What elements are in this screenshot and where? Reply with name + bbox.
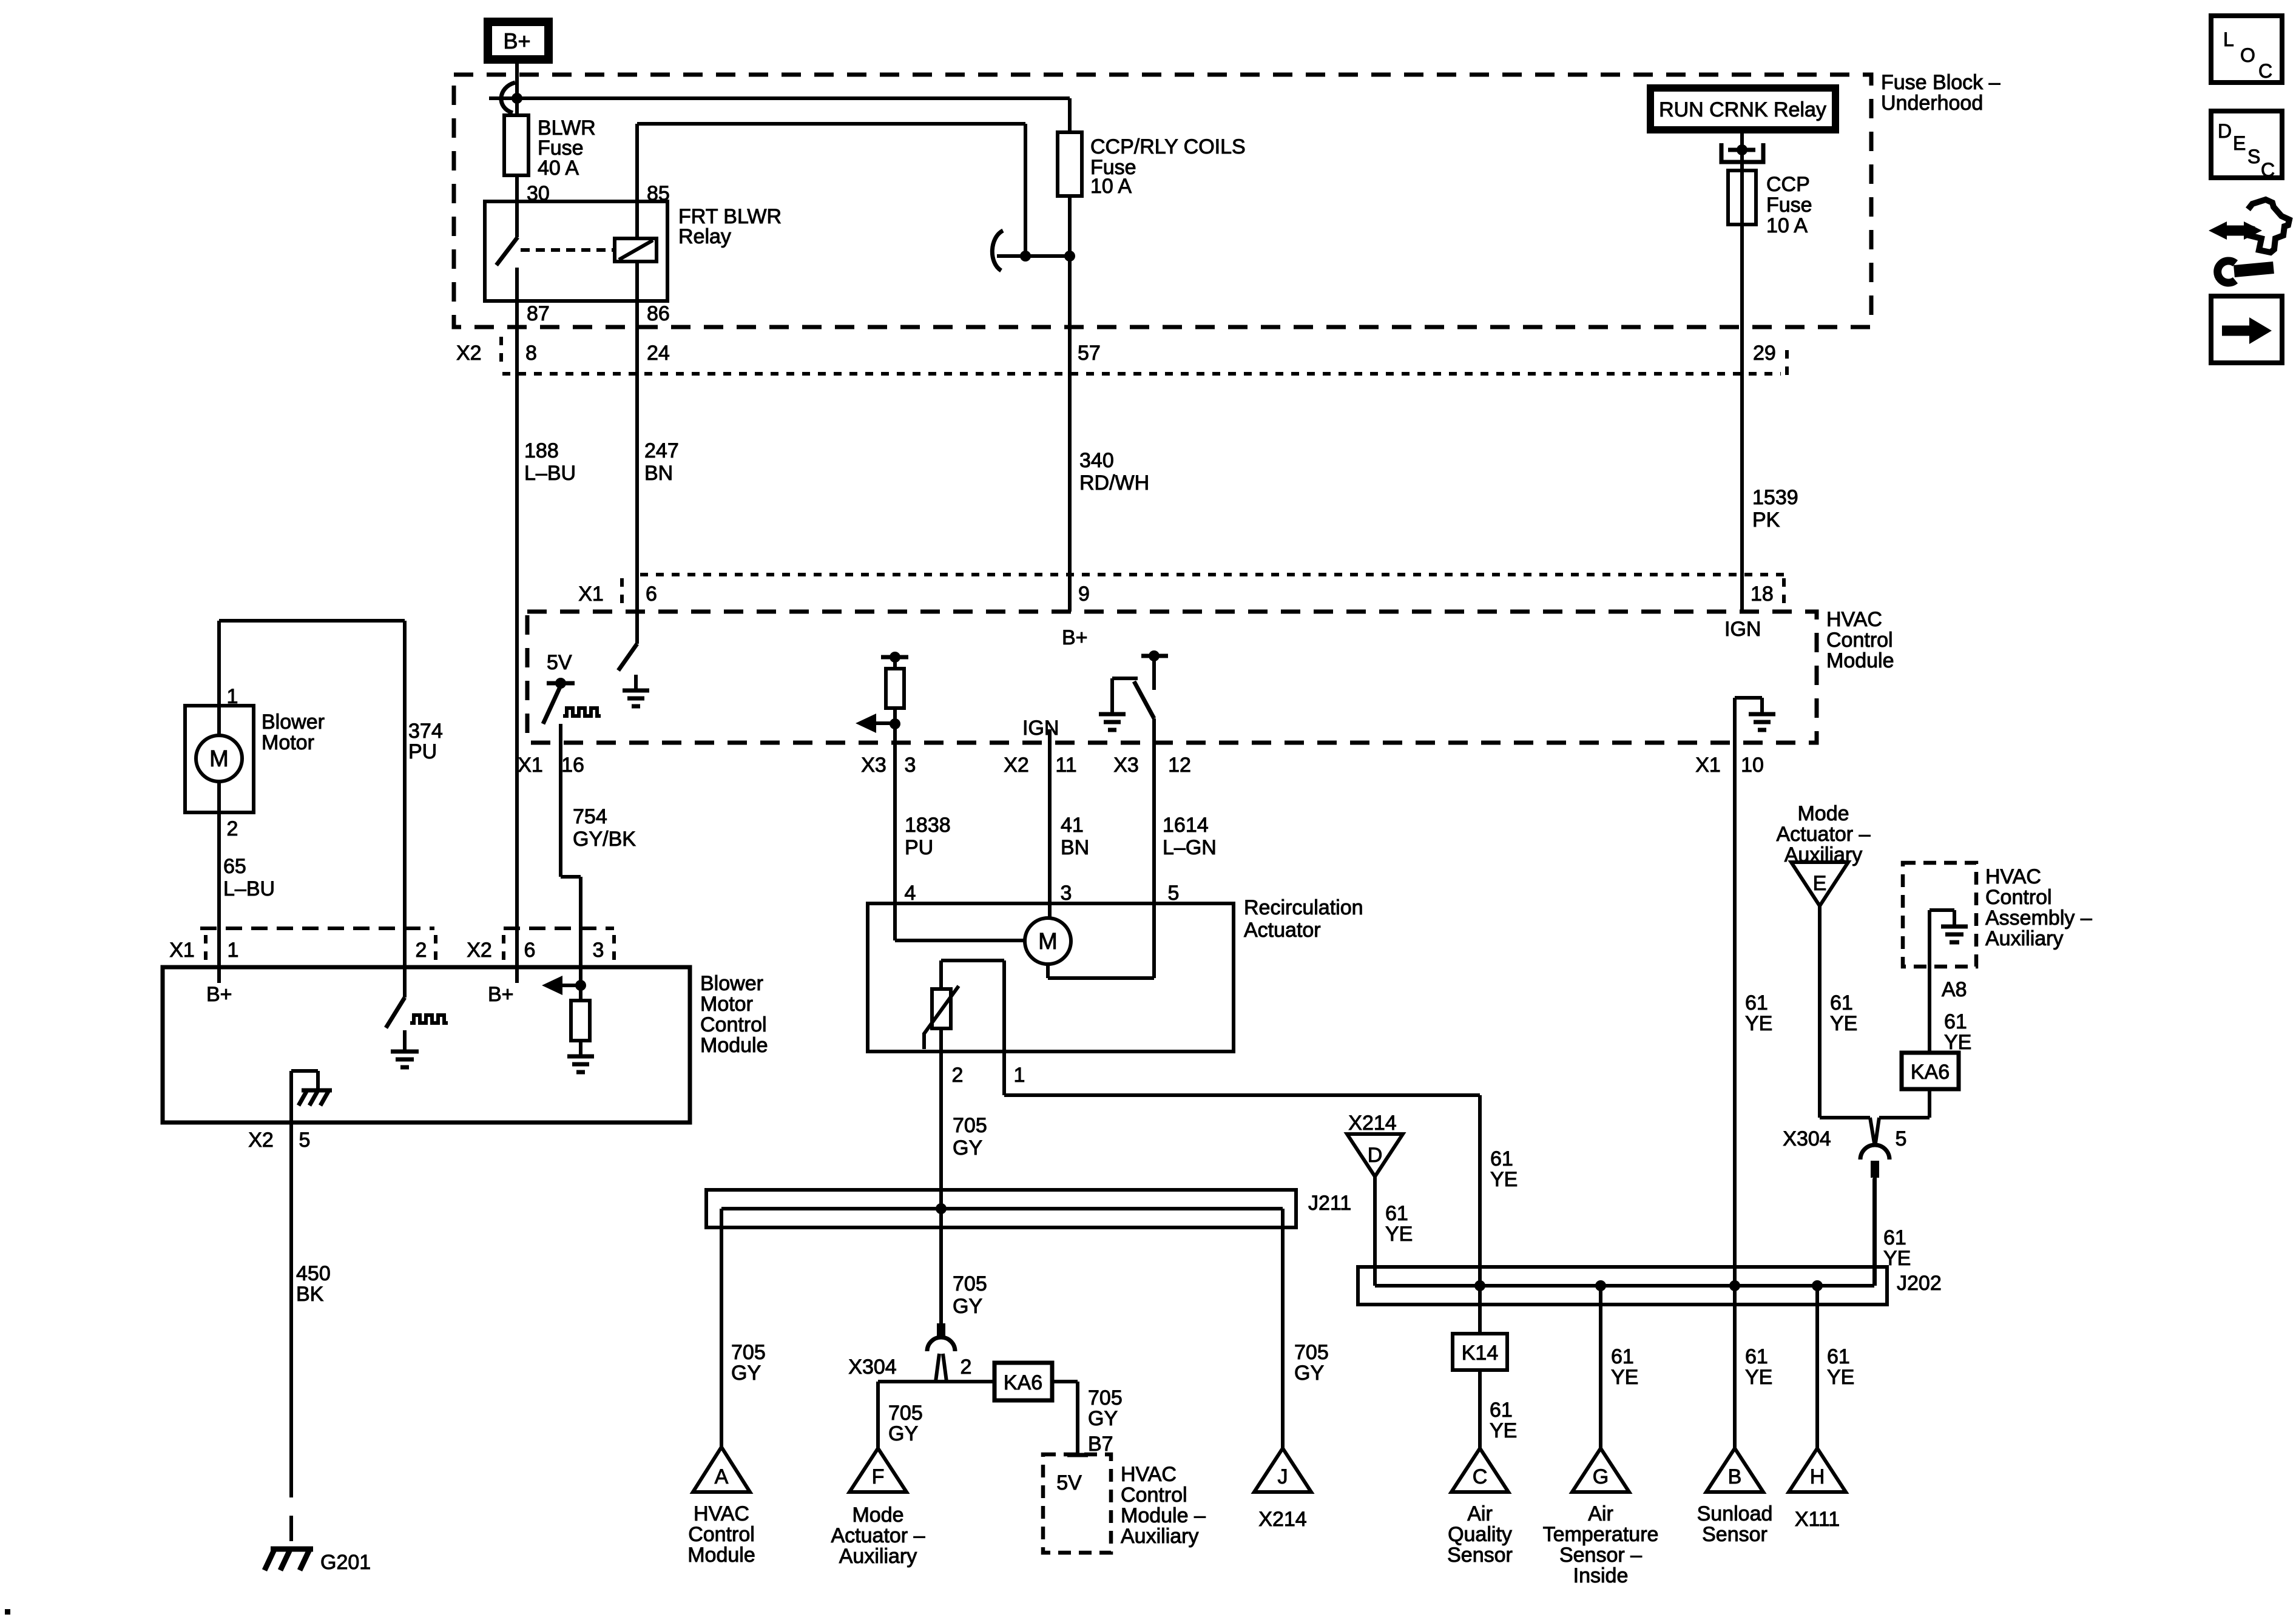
svg-text:X2: X2 [467,939,492,962]
svg-text:5: 5 [1896,1127,1907,1150]
svg-text:YE: YE [1385,1223,1413,1246]
svg-text:5: 5 [299,1129,311,1152]
svg-text:188: 188 [524,439,559,462]
svg-text:18: 18 [1751,582,1774,606]
svg-text:3: 3 [905,754,916,777]
svg-text:340: 340 [1079,449,1114,472]
svg-text:A8: A8 [1942,978,1967,1001]
svg-text:X304: X304 [1783,1127,1831,1150]
svg-text:PU: PU [905,836,933,859]
svg-text:Control: Control [688,1523,755,1546]
svg-text:X304: X304 [848,1355,896,1379]
svg-text:RD/WH: RD/WH [1079,471,1149,495]
svg-text:D: D [2218,120,2232,142]
svg-text:B+: B+ [503,29,530,53]
svg-text:Air: Air [1467,1502,1493,1525]
svg-text:754: 754 [573,805,607,828]
svg-text:YE: YE [1611,1366,1638,1389]
svg-text:KA6: KA6 [1911,1061,1950,1084]
svg-text:YE: YE [1827,1366,1854,1389]
svg-text:11: 11 [1055,754,1076,777]
svg-text:705: 705 [1294,1341,1329,1364]
svg-text:Temperature: Temperature [1543,1523,1659,1546]
svg-text:IGN: IGN [1022,717,1059,740]
svg-text:1: 1 [228,939,239,962]
svg-text:Sensor: Sensor [1702,1523,1768,1546]
svg-text:X2: X2 [456,342,482,365]
svg-text:C: C [2258,60,2272,82]
svg-text:C: C [2261,159,2275,181]
svg-text:C: C [1473,1465,1488,1488]
svg-text:Auxiliary: Auxiliary [839,1545,917,1568]
svg-text:HVAC: HVAC [1826,608,1882,631]
svg-text:24: 24 [647,342,670,365]
svg-text:9: 9 [1078,582,1090,606]
svg-text:Assembly –: Assembly – [1985,906,2092,930]
svg-text:K14: K14 [1462,1342,1499,1365]
svg-text:247: 247 [644,439,679,462]
svg-text:BK: BK [296,1283,324,1306]
svg-text:E: E [1813,872,1827,895]
svg-text:X1: X1 [1695,754,1721,777]
svg-text:HVAC: HVAC [694,1502,749,1525]
svg-text:1: 1 [227,685,238,708]
svg-text:61: 61 [1490,1147,1513,1170]
svg-text:Auxiliary: Auxiliary [1985,927,2063,950]
svg-text:Inside: Inside [1573,1564,1629,1587]
svg-text:Mode: Mode [1797,802,1849,825]
svg-text:61: 61 [1385,1202,1408,1225]
svg-text:F: F [872,1465,885,1488]
svg-text:YE: YE [1490,1168,1518,1191]
svg-text:40 A: 40 A [538,157,579,180]
svg-text:Mode: Mode [852,1504,903,1527]
svg-text:GY: GY [731,1362,761,1385]
svg-text:X111: X111 [1795,1508,1840,1531]
svg-text:10 A: 10 A [1090,175,1132,198]
svg-text:IGN: IGN [1724,618,1761,641]
svg-text:61: 61 [1490,1399,1513,1422]
svg-text:87: 87 [527,302,550,325]
svg-text:B+: B+ [206,983,232,1006]
svg-text:3: 3 [1061,882,1072,905]
svg-text:J: J [1278,1465,1288,1488]
svg-text:61: 61 [1827,1345,1850,1368]
svg-text:X3: X3 [861,754,886,777]
svg-text:X2: X2 [1004,754,1029,777]
svg-text:Actuator –: Actuator – [831,1524,925,1547]
svg-text:GY: GY [953,1136,982,1160]
svg-text:X1: X1 [169,939,195,962]
svg-text:1539: 1539 [1752,486,1798,509]
svg-text:705: 705 [888,1402,923,1425]
svg-text:5: 5 [1168,882,1180,905]
svg-text:B7: B7 [1088,1433,1113,1456]
svg-text:L–BU: L–BU [524,462,576,485]
svg-text:B+: B+ [1062,626,1088,649]
svg-text:H: H [1810,1465,1825,1488]
svg-text:YE: YE [1944,1031,1971,1054]
svg-text:5V: 5V [547,651,572,674]
svg-text:YE: YE [1830,1012,1857,1035]
svg-text:2: 2 [952,1064,964,1087]
svg-text:86: 86 [647,302,670,325]
svg-text:705: 705 [953,1272,987,1295]
svg-text:G: G [1593,1465,1609,1488]
svg-text:65: 65 [223,855,246,878]
svg-text:PU: PU [408,740,437,763]
svg-text:PK: PK [1752,508,1780,532]
svg-text:GY: GY [1088,1407,1118,1430]
svg-text:16: 16 [561,754,584,777]
svg-text:450: 450 [296,1262,331,1285]
svg-text:A: A [715,1465,729,1488]
svg-text:61: 61 [1611,1345,1634,1368]
svg-text:X1: X1 [518,754,543,777]
svg-text:705: 705 [1088,1386,1123,1409]
svg-text:10: 10 [1741,754,1764,777]
svg-text:374: 374 [408,720,443,743]
svg-text:12: 12 [1168,754,1191,777]
svg-text:Module: Module [687,1544,755,1567]
svg-text:2: 2 [416,939,427,962]
svg-text:HVAC: HVAC [1985,865,2041,888]
svg-text:GY/BK: GY/BK [573,828,636,851]
svg-text:L–GN: L–GN [1163,836,1217,859]
svg-text:2: 2 [227,817,238,840]
svg-text:3: 3 [593,939,604,962]
svg-text:GY: GY [1294,1362,1324,1385]
svg-text:BN: BN [1061,836,1089,859]
svg-text:6: 6 [646,582,657,606]
svg-text:YE: YE [1745,1012,1772,1035]
svg-text:Fuse: Fuse [1766,194,1812,217]
svg-text:61: 61 [1830,991,1853,1014]
svg-text:Sensor –: Sensor – [1559,1544,1642,1567]
svg-text:X3: X3 [1113,754,1139,777]
svg-text:Sunload: Sunload [1697,1502,1773,1525]
svg-text:Underhood: Underhood [1881,92,1983,115]
svg-text:61: 61 [1745,1345,1768,1368]
svg-text:KA6: KA6 [1004,1371,1042,1394]
svg-text:Control: Control [1826,629,1893,652]
svg-text:B: B [1728,1465,1742,1488]
svg-text:M: M [209,746,229,772]
svg-text:X2: X2 [248,1129,274,1152]
svg-text:Air: Air [1588,1502,1613,1525]
svg-text:57: 57 [1078,342,1101,365]
svg-text:E: E [2233,132,2246,154]
svg-text:Control: Control [1121,1484,1187,1507]
svg-text:X1: X1 [578,582,604,606]
svg-text:J202: J202 [1897,1272,1942,1295]
svg-text:YE: YE [1490,1419,1517,1442]
svg-text:HVAC: HVAC [1121,1463,1177,1486]
svg-text:Motor: Motor [262,731,314,754]
svg-text:61: 61 [1883,1226,1906,1249]
svg-text:Module: Module [1826,649,1894,672]
svg-text:61: 61 [1745,991,1768,1014]
svg-text:Actuator –: Actuator – [1777,823,1871,846]
svg-text:GY: GY [888,1422,918,1445]
svg-text:Relay: Relay [678,225,731,248]
svg-text:8: 8 [525,342,537,365]
svg-text:BN: BN [644,462,673,485]
svg-text:Quality: Quality [1448,1523,1512,1546]
svg-text:M: M [1038,929,1058,954]
svg-text:B+: B+ [488,983,514,1006]
svg-text:CCP: CCP [1766,173,1810,196]
svg-text:Module –: Module – [1121,1504,1206,1527]
svg-text:L–BU: L–BU [223,877,275,900]
svg-text:705: 705 [731,1341,766,1364]
svg-text:D: D [1368,1144,1383,1167]
svg-text:Auxiliary: Auxiliary [1121,1525,1198,1548]
svg-text:G201: G201 [320,1551,371,1574]
svg-text:Module: Module [700,1034,768,1057]
svg-text:RUN CRNK Relay: RUN CRNK Relay [1659,98,1826,121]
svg-text:5V: 5V [1056,1471,1082,1494]
svg-text:Blower: Blower [262,711,325,734]
svg-text:Blower: Blower [700,972,763,995]
svg-text:Fuse Block –: Fuse Block – [1881,71,2001,94]
svg-text:S: S [2247,146,2260,167]
svg-text:CCP/RLY COILS: CCP/RLY COILS [1090,135,1246,158]
svg-text:YE: YE [1883,1247,1911,1270]
svg-text:1614: 1614 [1163,814,1209,837]
svg-text:GY: GY [953,1295,982,1318]
svg-text:1838: 1838 [905,814,951,837]
svg-text:Sensor: Sensor [1447,1544,1513,1567]
svg-text:41: 41 [1061,814,1084,837]
svg-text:1: 1 [1014,1064,1025,1087]
svg-text:4: 4 [905,882,916,905]
svg-text:J211: J211 [1308,1192,1351,1215]
svg-text:L: L [2223,29,2234,50]
svg-text:10 A: 10 A [1766,214,1808,237]
svg-text:Motor: Motor [700,993,753,1016]
svg-text:705: 705 [953,1114,987,1137]
svg-text:X214: X214 [1348,1112,1396,1135]
svg-text:Control: Control [700,1013,767,1036]
svg-text:2: 2 [961,1355,972,1379]
svg-text:Control: Control [1985,886,2052,909]
svg-text:6: 6 [524,939,536,962]
svg-text:61: 61 [1944,1010,1967,1033]
svg-text:X214: X214 [1258,1508,1306,1531]
svg-text:Recirculation: Recirculation [1244,896,1363,919]
svg-text:29: 29 [1753,342,1776,365]
svg-text:YE: YE [1745,1366,1772,1389]
svg-text:O: O [2240,44,2255,66]
svg-text:Actuator: Actuator [1244,919,1321,942]
